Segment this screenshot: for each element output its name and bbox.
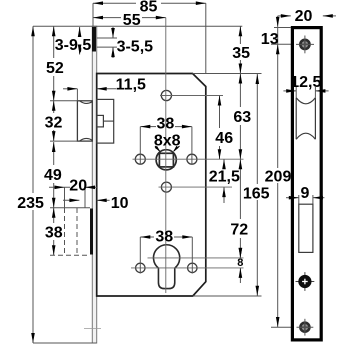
svg-text:46: 46 [215, 130, 233, 147]
svg-text:85: 85 [140, 0, 158, 16]
svg-text:235: 235 [17, 195, 44, 212]
svg-text:52: 52 [46, 60, 64, 77]
svg-text:13: 13 [261, 31, 279, 48]
svg-text:12,5: 12,5 [290, 74, 321, 91]
svg-text:10: 10 [111, 195, 129, 212]
svg-text:38: 38 [45, 224, 63, 241]
svg-text:9: 9 [301, 185, 310, 202]
svg-text:55: 55 [123, 12, 141, 29]
svg-text:32: 32 [45, 114, 63, 131]
svg-text:38: 38 [155, 228, 173, 245]
svg-text:209: 209 [265, 168, 292, 185]
svg-text:63: 63 [233, 109, 251, 126]
svg-text:49: 49 [44, 167, 62, 184]
svg-text:20: 20 [69, 177, 87, 194]
svg-text:8: 8 [237, 257, 243, 269]
svg-text:21,5: 21,5 [209, 168, 240, 185]
svg-text:35: 35 [232, 45, 250, 62]
svg-text:3-5,5: 3-5,5 [117, 39, 154, 56]
svg-text:3-9,5: 3-9,5 [55, 37, 92, 54]
svg-text:20: 20 [295, 8, 313, 25]
svg-text:11,5: 11,5 [116, 76, 146, 93]
svg-text:38: 38 [157, 115, 175, 132]
svg-text:72: 72 [230, 222, 248, 239]
svg-text:165: 165 [243, 185, 270, 202]
